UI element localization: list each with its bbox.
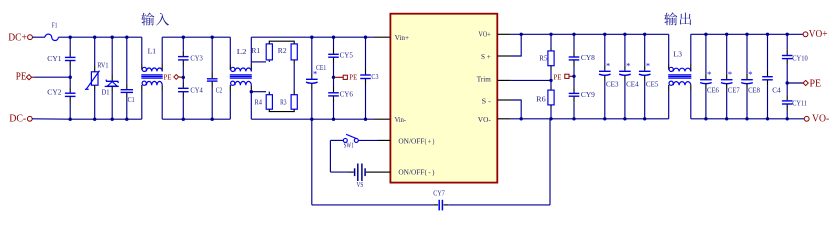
svg-text:VO-: VO- [478,115,491,124]
svg-text:( - ): ( - ) [425,169,435,177]
inductor L1 right vertical wires [161,37,163,64]
svg-text:*: * [748,69,752,79]
resistor R4 [266,95,272,110]
svg-text:CY1: CY1 [47,54,62,63]
capacitor CE4 (electrolytic) [624,34,626,65]
inductor L2 right vertical wires [250,37,252,64]
node L2 bottom junction [250,90,253,93]
inductor L2 left vertical wires [229,37,231,64]
resistor R5 [550,34,552,47]
svg-text:L3: L3 [673,49,682,58]
svg-text:L1: L1 [148,47,157,56]
battery VS [349,171,354,173]
svg-text:Vin-: Vin- [395,115,407,124]
svg-text:CY2: CY2 [47,87,62,96]
svg-text:L2: L2 [237,47,247,56]
svg-text:R6: R6 [536,94,546,103]
svg-text:*: * [646,61,650,71]
svg-text:CY3: CY3 [190,53,203,62]
svg-text:CY9: CY9 [581,90,595,99]
inductor L1 left vertical wires [141,37,143,64]
label input 输入 [141,13,169,26]
wire L2 branch to R1 (top) [251,61,266,63]
capacitor CY5 [333,37,335,48]
wire CY7 bottom left segment [312,204,434,206]
svg-text:Trim: Trim [477,74,491,83]
svg-text:CY11: CY11 [792,98,807,107]
wire bottom output rail left of L3 [511,118,669,120]
capacitor C3 [365,37,367,69]
capacitor CE6 (electrolytic) [705,34,707,73]
resistor R1 [266,44,272,60]
svg-text:SW1: SW1 [344,141,355,149]
resistor R3 [291,95,297,110]
svg-text:*: * [728,69,732,79]
svg-text:VO+: VO+ [809,28,828,40]
wire S+ jumper to VO+ [512,34,522,56]
inductor L3 core [668,74,691,76]
inductor L2 core [230,74,252,76]
junction dots input rails group 2 [182,36,185,39]
node PE tap CY8/CY9 [572,75,575,78]
inductor L1 core [141,74,162,76]
capacitor CY6 [333,77,335,87]
varistor RV1 [94,37,96,66]
svg-text:CY4: CY4 [190,86,203,95]
capacitor CE7 (electrolytic) [726,34,728,73]
wire bottom rail L1 to L2 [162,118,230,120]
diode D1 (TVS) [111,37,113,74]
inductor L3 right vertical wires [690,34,692,64]
junction dots output rails group 1 [549,33,552,36]
svg-text:CE5: CE5 [646,79,659,88]
svg-text:CY6: CY6 [340,90,354,99]
node PE tap CY3/CY4 [182,76,185,79]
inductor L2 top winding [231,67,235,71]
wire top input rail L2 to IC [251,36,374,38]
junction dots output rails group 2 [704,33,707,36]
wire bottom input rail to L1 [70,118,142,120]
svg-text:CY8: CY8 [581,53,595,62]
svg-text:R4: R4 [255,98,263,107]
svg-text:C3: C3 [371,72,378,81]
wire switch to pin [358,139,377,141]
svg-text:CY10: CY10 [792,53,808,62]
svg-text:F1: F1 [52,21,58,30]
capacitor CY9 [573,76,575,87]
capacitor C2 [211,37,213,73]
svg-text:CE8: CE8 [748,86,760,95]
capacitor CY4 [182,77,184,82]
svg-text:CE7: CE7 [728,86,740,95]
svg-text:PE: PE [164,73,172,82]
svg-text:CE4: CE4 [626,79,639,88]
wire R1 top to R2 top [269,41,294,44]
inductor L2 bottom winding [231,81,235,85]
inductor L3 left vertical wires [668,34,670,64]
wire CY7 riser right (to VO- rail) [549,119,551,205]
wire ON/OFF(+) pin stub [378,139,391,141]
capacitor CY8 [573,34,575,51]
svg-text:DC+: DC+ [8,31,27,43]
node Trim junction [549,79,552,82]
svg-text:CE1: CE1 [316,63,326,72]
svg-text:S -: S - [482,97,492,106]
wire R4 bottom to R3 bottom [269,109,294,111]
wire L2 branch to R4 (bottom) [251,91,266,93]
svg-text:R5: R5 [539,54,547,63]
wire switch left to corner [330,139,343,141]
svg-text:ON/OFF: ON/OFF [398,168,424,177]
svg-text:DC-: DC- [9,113,26,125]
capacitor CY10 [786,34,788,50]
inductor L3 bottom winding [669,81,673,85]
wire S- pin stub [497,99,511,101]
svg-text:C4: C4 [772,86,781,95]
capacitor CY7 [434,204,439,206]
svg-text:CE6: CE6 [707,86,719,95]
svg-text:CY5: CY5 [340,50,354,59]
svg-text:VS: VS [357,180,364,189]
svg-text:*: * [606,61,610,71]
svg-text:R3: R3 [280,98,287,107]
wire bottom output rail right of L3 [691,118,805,120]
wire CY7 bottom right segment [448,204,550,206]
svg-text:R2: R2 [278,46,287,55]
node PE tap CY1/CY2 [69,76,72,79]
svg-text:R1: R1 [251,46,260,55]
svg-text:( + ): ( + ) [425,137,435,145]
terminal PE tap square (CY5/CY6) [334,76,344,78]
IC U1 body [390,14,497,183]
resistor R2 [291,44,297,60]
svg-text:ON/OFF: ON/OFF [398,136,424,145]
capacitor CY3 [182,37,184,51]
capacitor CE5 (electrolytic) [644,34,646,65]
svg-text:PE: PE [554,73,562,82]
capacitor CE1 (electrolytic) [311,37,313,73]
svg-text:C1: C1 [128,95,135,104]
wire PE to CY1/CY2 midpoint [35,76,71,78]
svg-text:VO+: VO+ [478,30,490,39]
node S- jumper [520,117,523,120]
terminal VO- [804,116,809,121]
wire DC+ to fuse [32,36,45,38]
wire ON/OFF loop left vertical [329,140,331,172]
capacitor CY2 [69,77,71,87]
svg-text:CE3: CE3 [606,79,619,88]
label output 输出 [664,12,691,25]
junction dots input rails group 3 [310,36,313,39]
svg-text:PE: PE [16,70,27,82]
svg-text:C2: C2 [216,86,223,95]
wire S- jumper to VO- [512,100,522,119]
svg-text:Vin+: Vin+ [395,33,410,42]
terminal PE output [787,82,803,84]
wire VO- pin stub [497,118,510,120]
svg-text:S +: S + [481,52,491,61]
capacitor CY11 [786,83,788,95]
capacitor C1 [126,37,128,84]
svg-text:RV1: RV1 [97,61,108,70]
capacitor C4 [767,34,769,71]
wire R2 bottom to R3 top [293,60,295,64]
wire VO+ pin stub [497,33,510,35]
wire top rail L1 to L2 [162,36,230,38]
wire top output rail right of L3 [691,33,803,35]
fuse F1 [45,34,58,40]
svg-text:PE: PE [349,73,357,82]
svg-text:D1: D1 [102,87,110,96]
inductor L1 bottom winding [142,81,146,85]
svg-text:VO-: VO- [812,113,829,125]
node PE tap CY5/CY6 [332,76,335,79]
svg-text:PE: PE [810,77,822,89]
resistor R6 [550,80,552,86]
wire Trim to R5/R6 [511,79,551,81]
wire battery to ON/OFF(-) pin [366,171,378,173]
wire S+ pin stub [497,55,511,57]
svg-text:CY7: CY7 [433,189,445,198]
capacitor CE8 (electrolytic) [746,34,748,73]
wire top input rail to L1 [58,36,141,38]
capacitor CY1 [69,37,71,51]
capacitor CE3 (electrolytic) [604,34,606,65]
wire Trim pin stub [497,79,510,81]
switch SW1 [343,138,347,142]
terminal VO+ [803,32,808,37]
svg-text:*: * [626,61,630,71]
junction dots input rails group 1 [69,36,72,39]
inductor L3 top winding [669,67,673,71]
node PE tap CY10/CY11 [786,81,789,84]
wire top output rail left of L3 [511,33,669,35]
inductor L1 top winding [142,67,146,71]
wire CY7 riser left (from Vin- rail) [311,119,313,205]
wire bottom input rail L2 to IC Vin- [251,118,374,120]
node S+ jumper [520,33,523,36]
svg-text:*: * [707,69,711,79]
wire corner to battery [330,171,348,173]
